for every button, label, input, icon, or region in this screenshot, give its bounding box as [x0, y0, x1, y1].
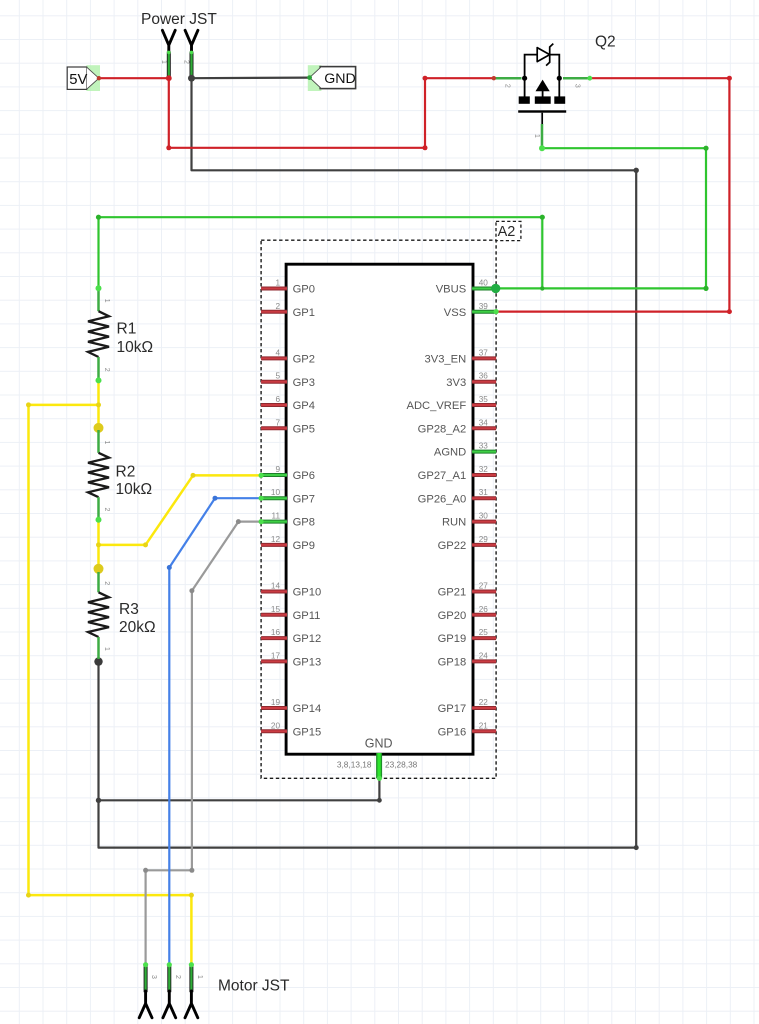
connector Power JST pin 2: [183, 30, 198, 78]
pin 5 GP3: [261, 372, 315, 389]
svg-text:5: 5: [275, 372, 280, 381]
svg-text:39: 39: [479, 302, 489, 311]
connector Motor JST pin 1: [185, 962, 203, 1018]
bendpoint yellow (145.5,544.9): [143, 542, 148, 547]
bendpoint black (379,800): [377, 798, 382, 803]
svg-text:27: 27: [479, 582, 489, 591]
junction black (98.5,800): [96, 798, 101, 803]
bendpoint red (168.8,147.8): [166, 145, 171, 150]
label A2: [496, 221, 521, 240]
connection glow R1 pin2: [96, 377, 102, 383]
pin 26 GP20: [438, 605, 497, 622]
wire yellow branch left: [29, 405, 192, 965]
connection glow Motor pin 2: [167, 962, 172, 967]
pin 11 GP8: [261, 512, 315, 529]
svg-text:40: 40: [479, 279, 489, 288]
resistor R3: [88, 572, 156, 659]
svg-text:25: 25: [479, 628, 489, 637]
svg-text:A2: A2: [498, 224, 516, 240]
connector Motor JST pin 3: [139, 962, 157, 1018]
svg-text:GP4: GP4: [293, 400, 315, 412]
Q2 pin 1 terminal: [541, 124, 544, 148]
svg-text:2: 2: [103, 508, 110, 512]
svg-text:19: 19: [271, 698, 281, 707]
connector Motor JST pin 2: [163, 962, 181, 1018]
svg-text:GND: GND: [365, 737, 393, 751]
net label 5V: [67, 65, 100, 91]
svg-text:2: 2: [174, 975, 181, 979]
bendpoint black (636,170): [634, 168, 639, 173]
Q2 arrow: [536, 80, 550, 92]
svg-text:34: 34: [479, 418, 489, 427]
svg-text:GP27_A1: GP27_A1: [418, 470, 467, 482]
svg-text:R2: R2: [116, 463, 136, 480]
bendpoint red (425,147.8): [423, 145, 428, 150]
svg-text:32: 32: [479, 465, 489, 474]
pin 30 RUN: [442, 512, 496, 529]
svg-text:GP14: GP14: [293, 703, 322, 715]
svg-text:29: 29: [479, 535, 489, 544]
svg-text:GP12: GP12: [293, 633, 322, 645]
svg-text:GP13: GP13: [293, 657, 322, 669]
wire green R1.1 to VBUS: [99, 217, 543, 288]
connector Power JST pin 1: [160, 30, 175, 78]
svg-text:GP21: GP21: [438, 587, 467, 599]
pin 9 GP6: [261, 465, 315, 482]
svg-text:7: 7: [275, 418, 280, 427]
bendpoint green (98.5,217.2): [96, 215, 101, 220]
Q2 pin 3 terminal: [563, 77, 590, 80]
bendpoint red (729.4,311.6): [727, 309, 732, 314]
bendpoint yellow (28.5,404.9): [26, 402, 31, 407]
svg-text:GND: GND: [324, 71, 356, 87]
svg-text:GP6: GP6: [293, 470, 315, 482]
svg-text:16: 16: [271, 628, 281, 637]
svg-text:GP3: GP3: [293, 377, 315, 389]
pin 22 GP17: [438, 698, 497, 715]
svg-text:R3: R3: [119, 601, 139, 618]
svg-text:1: 1: [103, 440, 110, 444]
svg-text:1: 1: [196, 975, 203, 979]
svg-text:GP2: GP2: [293, 354, 315, 366]
svg-text:10kΩ: 10kΩ: [117, 339, 154, 356]
pin 27 GP21: [438, 582, 497, 599]
wire gray GP8 to Motor JST pin3: [146, 522, 262, 965]
connection glow Power pin1: [167, 51, 171, 55]
net label GND: [308, 65, 356, 91]
svg-text:15: 15: [271, 605, 281, 614]
ic A2 dashed outline: [261, 240, 496, 778]
Q2 drain/source leads: [524, 78, 526, 96]
svg-text:36: 36: [479, 372, 489, 381]
svg-text:GP15: GP15: [293, 726, 322, 738]
pin 10 GP7: [261, 488, 315, 505]
pin 19 GP14: [261, 698, 321, 715]
pin 1 GP0: [261, 279, 315, 296]
junction Power JST pin2: [188, 75, 195, 82]
junction R3 pin2: [94, 564, 104, 574]
pin 37 3V3_EN: [425, 348, 497, 365]
bendpoint red (729.4,78.2): [727, 76, 732, 81]
pin 4 GP2: [261, 348, 315, 365]
svg-text:Power JST: Power JST: [141, 11, 217, 28]
svg-text:37: 37: [479, 348, 489, 357]
bendpoint gray (238.4,521.6): [236, 519, 241, 524]
svg-text:GP1: GP1: [293, 307, 315, 319]
svg-text:24: 24: [479, 651, 489, 660]
pin 15 GP11: [261, 605, 320, 622]
svg-text:VBUS: VBUS: [436, 284, 466, 296]
pin 25 GP19: [438, 628, 497, 645]
bendpoint red (425,78.2): [423, 76, 428, 81]
bendpoint green (706,148.2): [703, 146, 708, 151]
svg-text:GP17: GP17: [438, 703, 467, 715]
bendpoint yellow (98.5,404.9): [96, 402, 101, 407]
svg-text:21: 21: [479, 721, 489, 730]
bendpoint blue (215.0,498.2): [213, 496, 218, 501]
junction red 5V branch: [166, 75, 172, 81]
svg-text:20: 20: [271, 721, 281, 730]
svg-text:3: 3: [150, 975, 157, 979]
Q2 pin 2 terminal: [494, 77, 522, 80]
svg-text:1: 1: [160, 60, 167, 64]
connection glow GP8: [259, 519, 264, 524]
pin 14 GP10: [261, 582, 321, 599]
bendpoint gray (191.9,870.3): [189, 868, 194, 873]
svg-text:1: 1: [103, 299, 110, 303]
pin GND (3,8,13,18 / 23,28,38): [337, 737, 418, 779]
connection glow R2 pin2: [96, 517, 102, 523]
Q2 junction dot pin3 side: [557, 76, 562, 81]
bendpoint yellow (191.4,895.1): [189, 893, 194, 898]
svg-text:17: 17: [271, 651, 281, 660]
wire yellow junction to GP6: [99, 475, 262, 545]
pin 16 GP12: [261, 628, 321, 645]
svg-text:4: 4: [275, 348, 280, 357]
svg-text:9: 9: [275, 465, 280, 474]
svg-text:GP19: GP19: [438, 633, 467, 645]
Q2 junction dot pin2 side: [522, 76, 527, 81]
svg-text:33: 33: [479, 442, 489, 451]
svg-text:30: 30: [479, 512, 489, 521]
connection glow Motor pin 3: [143, 962, 148, 967]
svg-text:3,8,13,18: 3,8,13,18: [337, 760, 372, 770]
resistor R2: [88, 430, 152, 520]
svg-text:1: 1: [275, 279, 280, 288]
wire red 5V to Q2 pin2: [99, 78, 494, 148]
connection glow GND tip: [307, 75, 312, 80]
svg-text:RUN: RUN: [442, 517, 466, 529]
pin 17 GP13: [261, 651, 321, 668]
svg-text:3: 3: [574, 84, 581, 88]
svg-text:10kΩ: 10kΩ: [116, 481, 153, 498]
wire GND down from Power JST pin2: [99, 78, 637, 847]
bendpoint blue (169.3,567.5): [167, 565, 172, 570]
wire green VBUS to Q2 pin1: [496, 148, 706, 288]
bendpoint gray (145.6,870.3): [143, 868, 148, 873]
pin 40 VBUS: [436, 279, 496, 296]
svg-text:1: 1: [103, 647, 110, 651]
svg-text:GP22: GP22: [438, 540, 467, 552]
svg-text:35: 35: [479, 395, 489, 404]
bendpoint yellow (98.5,544.9): [96, 542, 101, 547]
Q2 body diode: [525, 55, 560, 79]
bendpoint yellow (193.0,475.4): [191, 473, 196, 478]
pin 34 GP28_A2: [418, 418, 496, 435]
pin 21 GP16: [438, 721, 497, 738]
svg-text:Q2: Q2: [595, 34, 616, 51]
wire yellow R1.2 to R2.1: [97, 380, 100, 430]
wire GND branch to IC: [99, 778, 380, 800]
pin 39 VSS: [444, 302, 496, 319]
pin 32 GP27_A1: [418, 465, 496, 482]
pin 20 GP15: [261, 721, 321, 738]
pin 12 GP9: [261, 535, 315, 552]
svg-text:2: 2: [103, 581, 110, 585]
pin 29 GP22: [438, 535, 497, 552]
connection glow Motor pin 1: [189, 962, 194, 967]
svg-text:11: 11: [272, 512, 281, 521]
svg-text:GP5: GP5: [293, 423, 315, 435]
svg-text:GP11: GP11: [293, 610, 321, 622]
connection glow R1 pin1: [96, 285, 102, 291]
pin 2 GP1: [261, 302, 315, 319]
connection glow Q2 pin2: [492, 76, 496, 80]
junction R3 pin1: [94, 657, 102, 665]
pin 31 GP26_A0: [418, 488, 496, 505]
svg-text:GP26_A0: GP26_A0: [418, 493, 467, 505]
connection glow Q2 pin1: [539, 145, 545, 151]
connection glow GP7: [259, 496, 264, 501]
svg-text:6: 6: [275, 395, 280, 404]
svg-text:GP20: GP20: [438, 610, 467, 622]
connection glow GP6: [259, 473, 264, 478]
pin 36 3V3: [446, 372, 496, 389]
svg-text:VSS: VSS: [444, 307, 466, 319]
svg-text:1: 1: [533, 134, 540, 138]
svg-text:31: 31: [479, 488, 489, 497]
svg-text:GP9: GP9: [293, 540, 315, 552]
bendpoint green (542.3,217.2): [540, 215, 545, 220]
svg-text:GP18: GP18: [438, 657, 467, 669]
svg-text:GP10: GP10: [293, 587, 322, 599]
wire GND from connector: [192, 76, 310, 79]
svg-text:GP16: GP16: [438, 726, 467, 738]
bendpoint green (542.3,288.4): [540, 286, 544, 290]
junction VBUS: [491, 284, 500, 293]
connection glow VSS: [494, 309, 499, 314]
svg-text:2: 2: [103, 368, 110, 372]
svg-text:2: 2: [275, 302, 280, 311]
svg-text:23,28,38: 23,28,38: [385, 760, 418, 770]
ic A2 body: [286, 264, 473, 754]
svg-text:R1: R1: [117, 321, 137, 338]
pin 7 GP5: [261, 418, 315, 435]
junction R2 pin1: [94, 423, 104, 433]
svg-text:2: 2: [504, 84, 511, 88]
resistor R1: [88, 288, 153, 380]
wire red Q2 pin3 to VSS: [496, 78, 729, 311]
bendpoint yellow (28.5,895.1): [26, 893, 31, 898]
svg-text:GP7: GP7: [293, 493, 315, 505]
bendpoint black (636,848): [634, 845, 639, 850]
connection glow Power pin2: [190, 51, 194, 55]
svg-text:AGND: AGND: [434, 447, 466, 459]
wire yellow R2.2 to R3.2: [97, 520, 100, 572]
connection glow 5V tip: [97, 76, 101, 80]
svg-text:GP0: GP0: [293, 284, 315, 296]
pin 24 GP18: [438, 651, 497, 668]
pin 33 AGND: [434, 442, 496, 459]
svg-text:ADC_VREF: ADC_VREF: [407, 400, 467, 412]
Q2 gate bar: [518, 110, 566, 112]
svg-text:Motor JST: Motor JST: [218, 978, 290, 995]
connection glow IC GND: [377, 776, 382, 781]
svg-text:2: 2: [183, 60, 190, 64]
svg-text:10: 10: [271, 488, 281, 497]
Q2 pads: [519, 96, 530, 103]
bendpoint gray (191.9,590.7): [189, 588, 194, 593]
transistor Q2: [494, 34, 616, 149]
pin 35 ADC_VREF: [407, 395, 497, 412]
svg-text:GP28_A2: GP28_A2: [418, 423, 467, 435]
svg-text:5V: 5V: [69, 72, 87, 88]
svg-text:12: 12: [271, 535, 281, 544]
wire blue GP7 to Motor JST pin2: [169, 498, 261, 965]
svg-text:GP8: GP8: [293, 517, 315, 529]
svg-text:3V3_EN: 3V3_EN: [425, 354, 467, 366]
svg-text:20kΩ: 20kΩ: [119, 619, 156, 636]
connection glow Q2 pin3: [587, 76, 592, 81]
svg-text:3V3: 3V3: [446, 377, 466, 389]
pin 6 GP4: [261, 395, 315, 412]
svg-text:14: 14: [271, 582, 281, 591]
bendpoint green (706,288.4): [703, 286, 708, 291]
svg-text:22: 22: [479, 698, 489, 707]
svg-text:26: 26: [479, 605, 489, 614]
